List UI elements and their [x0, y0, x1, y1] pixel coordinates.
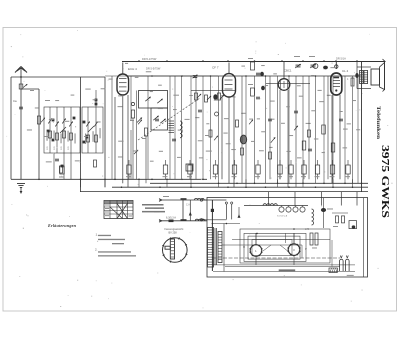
svg-text:6,3/0,3 A: 6,3/0,3 A: [166, 216, 176, 219]
svg-text:CBC1: CBC1: [284, 69, 292, 73]
svg-text:L73: L73: [305, 228, 310, 231]
svg-text:DR 5/1A: DR 5/1A: [336, 57, 346, 61]
svg-text:Ca: Ca: [13, 99, 17, 103]
svg-text:DR 5-5/75W: DR 5-5/75W: [146, 67, 161, 71]
svg-text:3975 GWKS: 3975 GWKS: [379, 145, 390, 219]
svg-text:ECH 4: ECH 4: [128, 67, 137, 71]
svg-text:2.: 2.: [95, 247, 98, 251]
svg-text:BV 258: BV 258: [169, 231, 178, 234]
svg-text:CL 4: CL 4: [342, 69, 349, 73]
svg-text:DR 5-1/75W: DR 5-1/75W: [142, 57, 157, 61]
svg-text:Erläuterungen: Erläuterungen: [47, 223, 77, 228]
svg-text:CF 7: CF 7: [212, 66, 219, 70]
svg-text:Telefunken: Telefunken: [375, 106, 380, 139]
svg-text:1.: 1.: [96, 233, 99, 237]
svg-text:S1 S2 U A: S1 S2 U A: [277, 215, 288, 218]
svg-text:C.A: C.A: [186, 204, 190, 207]
